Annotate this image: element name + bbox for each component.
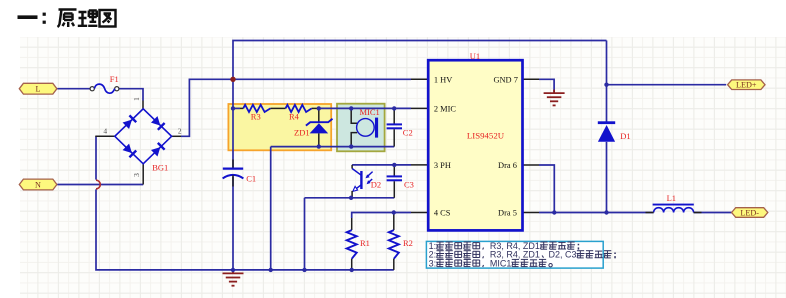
junction node MIC1 bottom (349, 144, 353, 148)
resistor R1 (351, 218, 353, 230)
terminal tag N (19, 179, 57, 190)
junction node D2 bottom (349, 196, 353, 200)
svg-text:R2: R2 (403, 238, 413, 248)
bridge diode top-left (122, 115, 137, 130)
junction node MIC row / C1 column (231, 106, 235, 110)
photo transistor D2 (351, 165, 353, 169)
junction node ground rail / C1 column (231, 268, 235, 272)
junction node D1 bottom (604, 210, 608, 214)
svg-text:Dra 6: Dra 6 (498, 161, 517, 170)
wire bridge pin4 down (95, 136, 97, 179)
junction node R1 bottom rail (350, 268, 354, 272)
junction node MIC1 top (349, 106, 353, 110)
wire Dra5 row to L1 (539, 212, 654, 214)
note box (mode description) (426, 241, 603, 268)
wire D2/C3 bottom row (305, 197, 395, 199)
svg-text:LED-: LED- (740, 208, 759, 217)
pin stubs IC right (523, 78, 540, 80)
svg-text:3:: 3: (429, 258, 437, 268)
highlight box (sound-control group R3 R4 ZD1) (228, 104, 331, 150)
wire fuse-to-bridge-top (119, 89, 143, 101)
capacitor C1 (232, 160, 234, 169)
ground symbol at GND7 (544, 90, 565, 106)
wire D1 column upper (606, 41, 608, 122)
wire N to bridge pin3 (57, 184, 143, 186)
svg-text:R1: R1 (360, 238, 370, 248)
svg-text:C2: C2 (403, 128, 413, 138)
junction node ZD1 bottom (317, 144, 321, 148)
wire D1 column lower (606, 142, 608, 213)
junction node D2-row rail (302, 268, 306, 272)
wire L-to-fuse (57, 88, 90, 90)
wire ZD1 bottom row (271, 146, 395, 148)
svg-text:L: L (35, 85, 40, 94)
pin stubs IC left (411, 78, 428, 80)
junction node Dra6/Dra5 (552, 210, 556, 214)
svg-text:BG1: BG1 (152, 163, 168, 173)
svg-text:ZD1: ZD1 (294, 128, 310, 138)
svg-text:L1: L1 (667, 193, 676, 203)
capacitor C3 (393, 165, 395, 176)
svg-text:1 HV: 1 HV (434, 75, 452, 84)
pin stub bridge pin4 (95, 135, 115, 137)
svg-text:C3: C3 (404, 179, 414, 189)
svg-text:D1: D1 (620, 131, 630, 141)
svg-text:N: N (35, 180, 41, 189)
bridge diode bottom-right (151, 142, 166, 157)
wire bridge pin2 riser to HV row (181, 79, 411, 136)
svg-text:4: 4 (103, 126, 107, 135)
junction node ZD1-row rail (269, 268, 273, 272)
inductor L1 (653, 204, 694, 206)
pin stub bridge pin2 (172, 135, 181, 137)
wire HV top rail (233, 41, 607, 80)
svg-text:3 PH: 3 PH (434, 161, 451, 170)
terminal tag LED+ (728, 80, 765, 90)
pin stub R4 right (312, 107, 319, 109)
svg-text:R4: R4 (289, 112, 300, 122)
terminal tag LED- (732, 208, 768, 218)
svg-text:Dra 5: Dra 5 (498, 209, 517, 218)
bridge rectifier BG1 outline (115, 109, 172, 164)
pin stub R3 left (240, 107, 243, 109)
wire hop (N over pin4 wire) (96, 180, 100, 189)
microphone MIC1 (351, 108, 357, 123)
fuse F1 (90, 87, 94, 91)
svg-text:U1: U1 (470, 51, 480, 61)
wire GND7 to ground (539, 79, 554, 92)
wire MIC row segment b (ZD1 top to IC pin2) (319, 107, 411, 109)
red junction dot HV node (230, 77, 235, 82)
diode D1 (598, 121, 615, 124)
pin stub bridge pin3 (142, 164, 144, 185)
wire HV node down to C1 top (232, 79, 234, 168)
svg-text:C1: C1 (246, 173, 256, 183)
svg-text:1: 1 (132, 97, 141, 101)
svg-text:D2, C3: D2, C3 (546, 250, 577, 260)
svg-text:MIC1: MIC1 (487, 258, 511, 268)
wire CS row (IC pin4 to R1/R2) (352, 213, 411, 219)
svg-text:LIS9452U: LIS9452U (467, 131, 505, 141)
pin stub between R3 R4 (270, 107, 285, 109)
terminal tag L (19, 83, 57, 94)
IC U1 body (428, 60, 522, 230)
zener diode ZD1 (318, 108, 320, 122)
svg-text:MIC1: MIC1 (360, 107, 380, 117)
svg-text:4 CS: 4 CS (434, 209, 451, 218)
capacitor C2 (393, 108, 395, 123)
junction node ZD1 top (317, 106, 321, 110)
ground symbol at bottom rail (223, 270, 244, 286)
title text 一：原理图 (18, 15, 38, 19)
svg-text:D2: D2 (371, 179, 381, 189)
svg-text:2 MIC: 2 MIC (434, 104, 457, 113)
svg-text:LED+: LED+ (736, 81, 757, 90)
wire Dra6 to Dra5 row (539, 165, 554, 213)
wire ZD1 row down to ground rail (270, 147, 272, 270)
resistor R4 (286, 105, 312, 112)
wire PH row (IC pin3 to D2/C3) (352, 164, 411, 166)
resistor R2 (393, 213, 395, 231)
junction node C2 top (392, 106, 396, 110)
wire LED+ row (607, 84, 727, 86)
svg-text:F1: F1 (110, 74, 119, 84)
svg-text:3: 3 (132, 173, 141, 177)
svg-text:R3: R3 (251, 112, 261, 122)
wire MIC row segment a (233, 107, 240, 109)
wire L1 to LED- tag (694, 212, 732, 214)
resistor R3 (243, 105, 270, 112)
bridge diode bottom-left (122, 144, 137, 159)
junction node C3 top (392, 163, 396, 167)
wire pin4 down below hop to ground rail (96, 189, 394, 270)
junction node LED+ branch (604, 83, 608, 87)
highlight box (MIC1 group) (337, 104, 385, 152)
svg-text:2: 2 (178, 126, 182, 135)
wire D2/C3 bottom down to ground rail (304, 198, 306, 270)
wire C1 bottom to ground rail (232, 177, 234, 270)
bridge diode top-right (151, 116, 166, 131)
svg-text:GND 7: GND 7 (493, 75, 517, 84)
junction node R2 top (392, 210, 396, 214)
pin stub bridge pin1 (142, 101, 144, 109)
